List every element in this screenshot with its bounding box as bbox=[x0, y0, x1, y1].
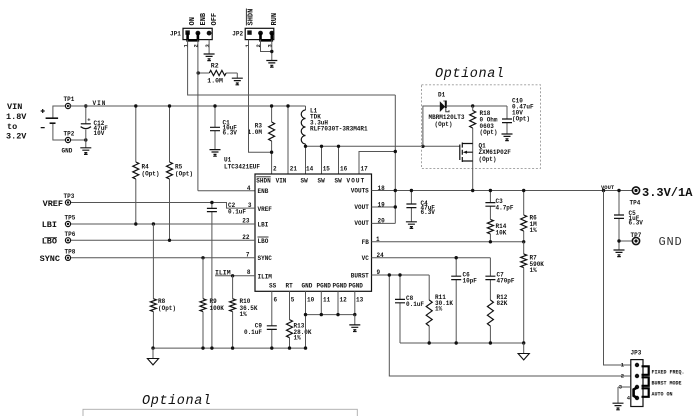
wire SW to D1 anode bbox=[423, 106, 440, 146]
svg-text:BURST: BURST bbox=[351, 272, 369, 279]
svg-text:1%: 1% bbox=[530, 227, 538, 234]
capacitor C8 0.1uF bbox=[399, 275, 401, 343]
svg-text:VIN: VIN bbox=[7, 102, 22, 112]
svg-text:16: 16 bbox=[340, 166, 348, 173]
resistor R18 0 Ohm 0603 (Opt) bbox=[472, 106, 474, 191]
resistor R9 100K bbox=[202, 258, 204, 348]
wire LBI to pin 23 bbox=[71, 223, 255, 225]
resistor R6 1M 1% bbox=[523, 191, 525, 242]
test point TP2 bbox=[65, 137, 70, 142]
svg-text:VREF: VREF bbox=[43, 199, 63, 209]
svg-text:RLF7030T-3R3M4R1: RLF7030T-3R3M4R1 bbox=[310, 126, 368, 133]
svg-text:TP2: TP2 bbox=[64, 130, 75, 137]
wire JP1 pin2 to ENB bbox=[198, 40, 255, 191]
svg-text:2: 2 bbox=[273, 166, 277, 173]
JP3 selector brackets bbox=[642, 366, 649, 375]
inductor L1 TDK 3.3uH bbox=[305, 106, 307, 174]
svg-text:JP1: JP1 bbox=[170, 30, 181, 37]
wire TP2 to C12 bbox=[71, 139, 86, 141]
svg-text:21: 21 bbox=[290, 166, 298, 173]
svg-text:ENB: ENB bbox=[258, 188, 269, 195]
node VOUT branch down bbox=[602, 189, 605, 192]
svg-text:11: 11 bbox=[323, 297, 331, 304]
resistor R5 (Opt) bbox=[169, 106, 171, 240]
svg-text:LTC3421EUF: LTC3421EUF bbox=[224, 164, 260, 171]
svg-text:0.1uF: 0.1uF bbox=[244, 329, 262, 336]
ground below C4 bbox=[406, 222, 417, 229]
node Q1 source to VOUTS bbox=[471, 189, 474, 192]
svg-text:82K: 82K bbox=[497, 300, 508, 307]
svg-text:GND: GND bbox=[62, 147, 73, 154]
svg-text:2: 2 bbox=[255, 44, 262, 47]
svg-text:SYNC: SYNC bbox=[40, 254, 60, 264]
svg-text:TP3: TP3 bbox=[64, 193, 75, 200]
resistor R11 30.1K 1% bbox=[428, 275, 430, 300]
wire SYNC to pin 7 bbox=[71, 257, 255, 259]
wire VC line bbox=[372, 257, 491, 259]
wire PGND pin stubs bbox=[306, 291, 355, 314]
svg-text:(Opt): (Opt) bbox=[435, 121, 453, 128]
node R8 branch bbox=[152, 222, 155, 225]
svg-text:VOUT: VOUT bbox=[354, 204, 369, 211]
svg-text:FIXED FREQ.: FIXED FREQ. bbox=[652, 369, 685, 375]
wire bottom ground bus bbox=[153, 347, 306, 349]
svg-text:6.3V: 6.3V bbox=[629, 220, 644, 227]
svg-text:AUTO ON: AUTO ON bbox=[652, 391, 673, 397]
resistor R7 590K 1% bbox=[523, 242, 525, 343]
svg-text:(Opt): (Opt) bbox=[175, 170, 193, 177]
svg-text:OFF: OFF bbox=[211, 13, 219, 26]
svg-text:2: 2 bbox=[193, 44, 200, 47]
JP2 pin numbers 1 2 3 bbox=[244, 44, 274, 48]
svg-text:8: 8 bbox=[247, 269, 251, 276]
capacitor C4 47uF 6.3V bbox=[410, 191, 412, 222]
svg-text:ON: ON bbox=[189, 17, 197, 25]
svg-text:ZXM61P02F: ZXM61P02F bbox=[479, 149, 512, 156]
svg-text:17: 17 bbox=[361, 166, 369, 173]
svg-text:SW: SW bbox=[335, 178, 343, 185]
ground below C12 bbox=[80, 148, 91, 155]
capacitor C10 0.47uF 10V (Opt) bbox=[506, 106, 508, 134]
svg-text:U1: U1 bbox=[224, 157, 232, 164]
svg-text:10V: 10V bbox=[94, 130, 105, 137]
svg-text:SHDN: SHDN bbox=[248, 9, 256, 26]
svg-text:10pF: 10pF bbox=[463, 277, 478, 284]
svg-text:VOUT: VOUT bbox=[354, 220, 369, 227]
svg-text:LBI: LBI bbox=[258, 221, 269, 228]
svg-text:100K: 100K bbox=[210, 305, 225, 312]
node SHDN/R3 bbox=[270, 151, 273, 154]
capacitor C7 470pF bbox=[489, 258, 491, 300]
ground below PGND bbox=[354, 315, 356, 325]
wire pin17 VOUT up and over bbox=[359, 152, 395, 175]
svg-text:10: 10 bbox=[307, 297, 315, 304]
jumper shunt JP2 pins 2-3 bbox=[261, 33, 272, 41]
resistor R2 1.0M bbox=[198, 73, 237, 78]
wire JP1 pin1 ON to VOUT node bbox=[188, 40, 396, 152]
wire BURST to JP3 pin 2 bbox=[389, 275, 631, 376]
capacitor C3 4.7pF bbox=[489, 191, 491, 220]
svg-text:(Opt): (Opt) bbox=[479, 156, 497, 163]
svg-text:7: 7 bbox=[246, 251, 250, 258]
resistor R4 (Opt) bbox=[135, 106, 137, 224]
test point TP1 bbox=[65, 103, 70, 108]
wire VIN to pin 21 bbox=[287, 106, 289, 174]
capacitor C12 47uF 10V (polarized) bbox=[85, 106, 87, 148]
wire PGND bus bbox=[306, 315, 355, 349]
wire pin19 stub bbox=[372, 206, 396, 208]
svg-text:VOUTS: VOUTS bbox=[351, 188, 369, 195]
svg-text:TP7: TP7 bbox=[631, 232, 642, 239]
svg-text:TP5: TP5 bbox=[65, 215, 76, 222]
battery source bbox=[53, 106, 65, 140]
wire JP2 pin1 SHDN to R3 bottom bbox=[249, 40, 272, 153]
svg-text:4: 4 bbox=[247, 185, 251, 192]
op-amp / IC U1 LTC3421EUF bbox=[255, 174, 372, 291]
svg-text:1.0M: 1.0M bbox=[207, 78, 223, 85]
svg-text:10K: 10K bbox=[496, 229, 507, 236]
svg-text:R2: R2 bbox=[211, 62, 219, 69]
node R2/ENB bbox=[197, 71, 200, 74]
node R5 to LBO bbox=[168, 239, 171, 242]
svg-text:TP8: TP8 bbox=[65, 249, 76, 256]
wire JP2 pins 2,3 to ground bbox=[261, 40, 272, 61]
svg-text:SW: SW bbox=[301, 178, 309, 185]
svg-text:(Opt): (Opt) bbox=[480, 129, 498, 136]
svg-text:1.0M: 1.0M bbox=[248, 129, 263, 136]
wire pin20 stub bbox=[372, 222, 396, 224]
capacitor C1 10uF 6.3V bbox=[214, 106, 216, 150]
wire JP3 pin 3 to ground bbox=[618, 387, 631, 403]
node TP1/C12 on VIN rail bbox=[84, 104, 87, 107]
resistor R10 36.5K 1% bbox=[232, 276, 234, 348]
wire VREF to pin 3 bbox=[71, 203, 255, 209]
wire VIN rail bbox=[68, 105, 306, 107]
node SW junctions bbox=[304, 145, 307, 148]
svg-text:JP2: JP2 bbox=[232, 30, 243, 37]
svg-text:0.1uF: 0.1uF bbox=[228, 208, 246, 215]
svg-text:3.2V: 3.2V bbox=[6, 132, 27, 142]
svg-text:Optional: Optional bbox=[435, 67, 505, 82]
box bottom optional (cut off) bbox=[83, 409, 357, 416]
svg-text:GND: GND bbox=[659, 235, 683, 249]
svg-text:1%: 1% bbox=[530, 267, 538, 274]
wire pin15 stub bbox=[321, 146, 323, 174]
svg-text:JP3: JP3 bbox=[631, 350, 642, 357]
svg-text:6: 6 bbox=[274, 297, 278, 304]
svg-text:ILIM: ILIM bbox=[258, 273, 273, 280]
svg-text:RUN: RUN bbox=[271, 13, 279, 26]
svg-text:SHDN: SHDN bbox=[256, 178, 271, 185]
node D1/R18 bbox=[471, 104, 474, 107]
wire ILIM to pin 8 bbox=[215, 275, 255, 277]
svg-text:13: 13 bbox=[356, 297, 364, 304]
svg-text:VIN: VIN bbox=[276, 178, 287, 185]
svg-text:1.8V: 1.8V bbox=[6, 112, 27, 122]
svg-text:FB: FB bbox=[362, 239, 370, 246]
svg-text:VREF: VREF bbox=[258, 206, 273, 213]
ground (open triangle) left bbox=[152, 348, 154, 358]
diode D1 MBRM120LT3 bbox=[440, 101, 445, 112]
svg-text:SW: SW bbox=[318, 178, 326, 185]
svg-text:PGND: PGND bbox=[317, 282, 332, 289]
svg-text:3.3V/1A: 3.3V/1A bbox=[642, 186, 693, 200]
svg-text:SYNC: SYNC bbox=[258, 255, 273, 262]
svg-text:1%: 1% bbox=[435, 305, 443, 312]
wire SW net bbox=[306, 145, 460, 147]
wire FB line bbox=[372, 241, 524, 243]
svg-text:12: 12 bbox=[340, 297, 348, 304]
svg-text:ILIM: ILIM bbox=[215, 269, 231, 276]
svg-text:SS: SS bbox=[269, 282, 277, 289]
JP1 pin labels ON ENB OFF bbox=[189, 12, 219, 25]
svg-text:TP4: TP4 bbox=[630, 199, 641, 206]
ground at JP1 pin 3 bbox=[208, 40, 210, 54]
wire pin16 stub bbox=[338, 146, 340, 174]
capacitor C5 1uF 6.3V bbox=[618, 191, 620, 251]
ground below C10 bbox=[502, 134, 513, 141]
svg-text:14: 14 bbox=[306, 166, 314, 173]
svg-text:VOUT: VOUT bbox=[347, 178, 366, 185]
ground at JP3 bbox=[613, 403, 624, 410]
svg-text:(Opt): (Opt) bbox=[142, 170, 160, 177]
ground (open triangle) right bbox=[523, 343, 525, 354]
svg-text:TP6: TP6 bbox=[65, 231, 76, 238]
svg-text:4.7pF: 4.7pF bbox=[496, 204, 514, 211]
svg-text:PGND: PGND bbox=[333, 282, 348, 289]
node VOUT verticals bbox=[394, 189, 397, 192]
jumper shunt JP1 pins 1-2 bbox=[188, 33, 198, 41]
ground below C5 bbox=[614, 250, 625, 257]
svg-text:(Opt): (Opt) bbox=[512, 116, 530, 123]
node R9 to SYNC bbox=[201, 256, 204, 259]
resistor R3 1.0M bbox=[271, 106, 273, 174]
wire BURST line bbox=[372, 274, 430, 276]
svg-text:1%: 1% bbox=[240, 311, 248, 318]
svg-text:15: 15 bbox=[323, 166, 331, 173]
capacitor C2 0.1uF bbox=[211, 203, 213, 349]
connector JP1 bbox=[170, 28, 212, 39]
svg-text:(Opt): (Opt) bbox=[158, 305, 176, 312]
svg-text:0.1uF: 0.1uF bbox=[406, 301, 424, 308]
node R4 to LBI bbox=[134, 222, 137, 225]
resistor R12 82K bbox=[487, 300, 493, 326]
test point TP4 / 3.3V/1A bbox=[632, 187, 639, 194]
resistor R14 10K bbox=[487, 219, 493, 234]
svg-text:LBO: LBO bbox=[258, 238, 269, 245]
node C12/TP2 bbox=[84, 138, 87, 141]
wire D1 cathode to R18/C10 bbox=[447, 105, 507, 107]
dashed box Optional bbox=[422, 85, 541, 169]
svg-text:D1: D1 bbox=[438, 92, 446, 99]
node R10 branch bbox=[231, 274, 234, 277]
svg-text:BURST MODE: BURST MODE bbox=[652, 380, 682, 386]
svg-text:PGND: PGND bbox=[349, 282, 364, 289]
svg-text:TP1: TP1 bbox=[64, 96, 75, 103]
wire compensation ground bus bbox=[400, 342, 524, 344]
svg-text:5: 5 bbox=[291, 297, 295, 304]
svg-text:6.3V: 6.3V bbox=[421, 209, 436, 216]
connector JP2 bbox=[232, 28, 274, 39]
svg-text:470pF: 470pF bbox=[497, 277, 515, 284]
svg-text:RT: RT bbox=[286, 282, 294, 289]
capacitor C6 10pF bbox=[455, 258, 457, 343]
wire VOUT to JP3 pin 1 bbox=[604, 191, 631, 366]
node JP2 gnd junction bbox=[270, 50, 273, 53]
svg-text:1%: 1% bbox=[294, 335, 302, 342]
test point TP7 GND bbox=[619, 240, 632, 242]
svg-text:LBI: LBI bbox=[42, 220, 57, 230]
jumper shunt JP3 pins 3-4 bbox=[634, 388, 637, 399]
svg-text:Optional: Optional bbox=[142, 394, 212, 409]
resistor R8 (Opt) bbox=[152, 224, 154, 348]
JP2 pin labels SHDN RUN bbox=[246, 9, 279, 26]
ground at JP2 bbox=[266, 61, 277, 68]
transistor Q1 ZXM61P02F (Opt) bbox=[460, 143, 473, 163]
svg-text:to: to bbox=[7, 122, 17, 132]
wire VOUT vertical bbox=[394, 152, 396, 224]
ground at R2 bbox=[232, 78, 243, 85]
wire VOUTS output line bbox=[372, 190, 633, 192]
ground below C1 bbox=[210, 150, 221, 157]
svg-text:6.3V: 6.3V bbox=[223, 129, 238, 136]
svg-text:VC: VC bbox=[362, 255, 370, 262]
JP1 pin numbers 1 2 3 bbox=[182, 44, 211, 48]
connector JP3 bbox=[631, 350, 644, 407]
svg-text:ENB: ENB bbox=[200, 12, 208, 25]
wire LBO to pin 22 bbox=[71, 239, 255, 241]
resistor R13 28.0K 1% bbox=[289, 291, 291, 348]
svg-text:GND: GND bbox=[302, 282, 313, 289]
svg-text:2: 2 bbox=[621, 372, 624, 379]
capacitor C9 0.1uF bbox=[271, 291, 273, 348]
